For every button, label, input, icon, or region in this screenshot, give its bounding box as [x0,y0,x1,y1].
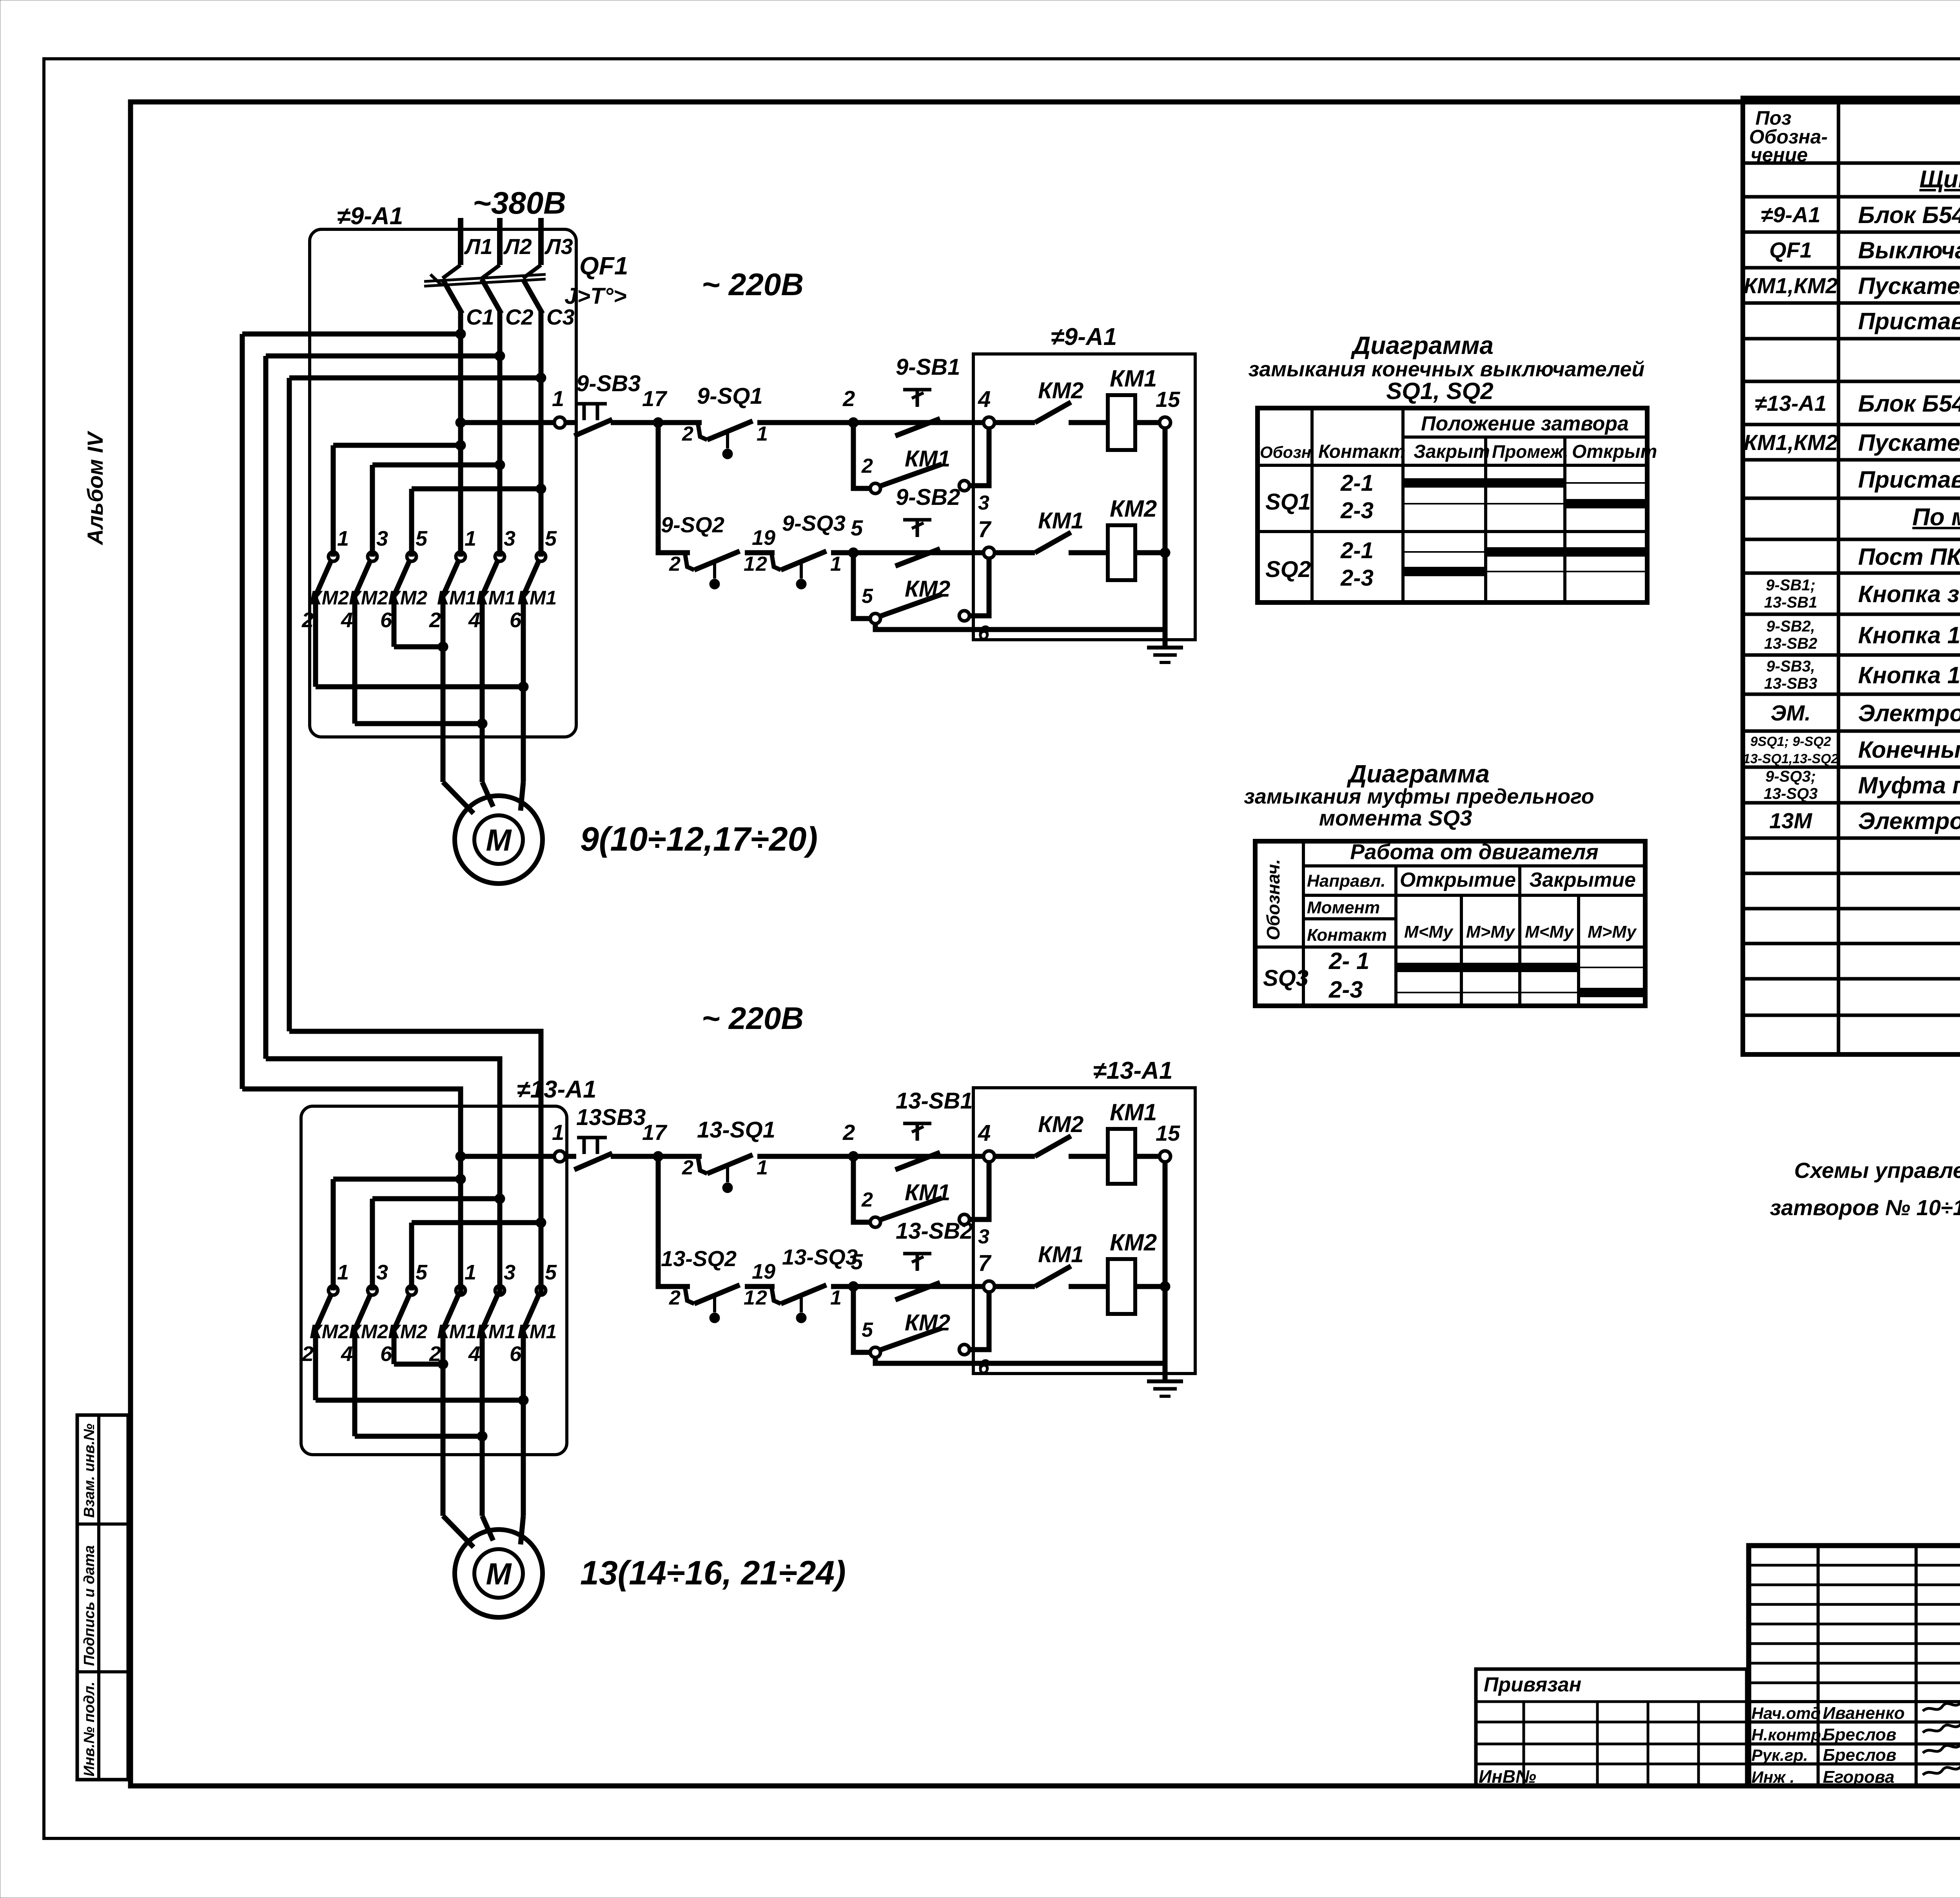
svg-text:Щит Щ1: Щит Щ1 [1919,166,1960,193]
svg-text:~380В: ~380В [473,185,566,220]
parts table row line [1743,497,1960,500]
svg-text:ИнВ№: ИнВ№ [1479,1766,1536,1787]
block ≠9-А1 control enclosure [973,354,1195,640]
ground wire vertical [1163,1162,1168,1381]
cross feed wire b [372,1196,500,1201]
svg-text:6: 6 [510,1342,522,1366]
svg-text:Промеж.: Промеж. [1492,441,1568,462]
svg-text:5: 5 [416,1261,428,1284]
parts table row line [1743,836,1960,840]
aux contact KM1 self-hold (13) [870,1198,969,1227]
wire [995,550,1035,555]
wire to node 15 [1135,420,1160,425]
cross feed wire c [412,1220,541,1225]
main contact КМ2 pole 3-4 (9) [355,552,377,596]
feeder wire 3 into lower block [289,1031,541,1295]
svg-text:КМ1: КМ1 [1110,1099,1157,1125]
svg-text:1: 1 [744,553,755,575]
return bus wire [875,624,1165,630]
svg-text:Привязан: Привязан [1484,1673,1581,1696]
svg-text:9-SQ1: 9-SQ1 [697,383,763,409]
svg-text:Обозн: Обозн [1260,443,1311,461]
pair join bracket 3 [355,721,482,726]
wire [1069,550,1108,555]
svg-text:чение: чение [1751,144,1808,166]
svg-text:9-SQ2: 9-SQ2 [661,512,724,537]
signature squiggle [1923,1742,1960,1753]
title block outline [1749,1546,1960,1786]
svg-text:Закрыт: Закрыт [1414,441,1490,462]
terminal circle 1 [554,1151,565,1162]
junction node 5 [848,1281,858,1292]
table 2 col line 2 [1394,866,1397,1006]
svg-text:Схемы управления выполнены д: Схемы управления выполнены для затворов … [1794,1158,1960,1183]
svg-text:КМ2: КМ2 [1038,1112,1083,1137]
closed bar SQ2 2-3 [1403,567,1486,576]
wire [1069,1284,1108,1289]
wire aux KM2 to node 7 [969,558,989,616]
ground (9) [1147,648,1183,662]
junction a [456,440,466,450]
svg-text:13(14÷16, 21÷24): 13(14÷16, 21÷24) [580,1554,846,1592]
motor M 9 [455,796,543,884]
wire node2 to aux KM1 [853,423,870,488]
contactor coil KM1 (13) [1108,1129,1135,1184]
contactor contact KM2 in rail 1 [1035,402,1071,423]
contactor contact KM1 in rail 2 [1035,1266,1071,1287]
svg-text:4: 4 [468,1342,480,1366]
wire to contact KM2-5 [409,1223,414,1290]
svg-text:2: 2 [861,455,873,477]
svg-text:2: 2 [842,1120,855,1145]
svg-text:2-1: 2-1 [1340,538,1374,563]
svg-text:М>Му: М>Му [1588,922,1637,942]
stamp strip divider 2 [77,1670,128,1673]
svg-text:QF1: QF1 [1769,238,1812,262]
wire to contact KM2-5 [409,489,414,557]
svg-text:КМ1: КМ1 [905,446,950,472]
privyazan col line [1523,1702,1525,1786]
stack row line [1749,1662,1960,1665]
torque switch 13-SQ3 [771,1285,826,1323]
junction node 2 [848,1151,858,1161]
parts table row line [1743,538,1960,541]
svg-text:Блок Б5438-3074гухл4: Блок Б5438-3074гухл4 [1858,390,1960,417]
svg-text:КМ2: КМ2 [905,576,950,602]
block ≠13-А1 control enclosure [973,1088,1195,1374]
terminal circle 7 [984,1281,995,1292]
svg-text:КМ1: КМ1 [1038,508,1083,533]
motor wire 2 [480,1329,485,1516]
privyazan col line [1697,1702,1700,1786]
svg-text:13-SB1: 13-SB1 [896,1088,973,1114]
svg-text:Приставка ПКЛ 2004: Приставка ПКЛ 2004 [1858,466,1960,493]
motor lead right [521,782,523,811]
svg-text:Обознач.: Обознач. [1263,859,1283,940]
svg-text:2: 2 [301,1342,314,1366]
svg-text:замыкания муфты предельного: замыкания муфты предельного [1244,785,1594,808]
svg-text:КМ1,КМ2: КМ1,КМ2 [1744,273,1838,298]
main contact КМ1 pole 3-4 (9) [482,552,505,596]
motor lead left [443,782,474,813]
block 13-A1 enclosure [301,1106,567,1455]
svg-text:1: 1 [465,527,476,550]
cross feed wire b [372,463,500,468]
svg-text:15: 15 [1156,1121,1180,1145]
signature squiggle [1923,1722,1960,1733]
pair join bracket 1 [394,644,443,650]
cross feed wire a [333,1177,461,1182]
parts table row line [1743,266,1960,270]
svg-text:2: 2 [755,1287,767,1309]
svg-text:~ 220В: ~ 220В [702,1001,804,1036]
junction bracket 3 [477,719,487,729]
junction node 5 [848,548,858,558]
closed bar SQ2 2-1 [1486,547,1647,557]
cross feed wire a [333,443,461,448]
table 2 header bottom [1255,945,1645,949]
junction bracket 2 [518,1395,528,1405]
svg-text:9-SB3: 9-SB3 [576,371,641,396]
svg-text:4: 4 [341,1342,353,1366]
parts table row line [1743,572,1960,575]
feeder wire 1 vertical [240,334,245,1089]
svg-text:1: 1 [465,1261,476,1284]
junction bracket 2 [518,682,528,692]
svg-text:Диаграмма: Диаграмма [1347,760,1490,788]
terminal circle 7 [984,547,995,558]
wire aux KM2 to node 7 [969,1292,989,1350]
closed bar SQ1 2-1 [1403,478,1565,488]
svg-text:Л2: Л2 [503,234,532,259]
svg-text:~ 220В: ~ 220В [702,267,804,302]
svg-text:2: 2 [669,553,681,575]
svg-text:5: 5 [416,527,428,550]
svg-text:Конечные выключатели: Конечные выключатели [1858,737,1960,763]
svg-text:1: 1 [757,1156,768,1179]
privyazan table outline [1476,1669,1747,1786]
diagram track line [1396,992,1645,993]
terminal circle 4 [984,417,995,428]
wire [565,1154,576,1159]
terminal circle 4 [984,1151,995,1162]
table 2 col line 5 [1577,895,1580,1006]
svg-text:2-1: 2-1 [1340,470,1374,496]
table 1 header split [1403,435,1647,439]
travel switch 9-SQ1 [698,421,753,459]
travel switch 13-SQ1 [698,1155,753,1193]
parts table row line [1743,380,1960,383]
stack row line [1749,1564,1960,1567]
privyazan col line [1596,1702,1599,1786]
parts table row line [1743,458,1960,462]
svg-text:19: 19 [752,526,775,550]
svg-text:2-3: 2-3 [1340,565,1374,591]
svg-text:Блок Б5437-3074гухл4: Блок Б5437-3074гухл4 [1858,202,1960,228]
svg-text:2- 1: 2- 1 [1328,948,1369,974]
svg-text:≠9-А1: ≠9-А1 [337,203,403,230]
parts table row line [1743,653,1960,657]
parts table outline [1743,98,1960,1054]
svg-text:КМ1: КМ1 [1038,1242,1083,1267]
diagram track line [1403,503,1647,504]
svg-text:КМ2: КМ2 [905,1310,950,1335]
wire to node 7 [831,550,984,555]
parts table row line [1743,977,1960,981]
svg-text:7: 7 [978,517,992,542]
svg-text:Электродвигатель 4АХС 80А4У3: Электродвигатель 4АХС 80А4У3 [1858,700,1960,726]
svg-text:Иваненко: Иваненко [1823,1704,1905,1723]
svg-text:Егорова: Егорова [1823,1767,1895,1787]
svg-text:Направл.: Направл. [1307,871,1386,891]
wire [995,1154,1035,1159]
svg-text:Рук.гр.: Рук.гр. [1751,1746,1808,1764]
wire contact 2 down [313,595,318,687]
terminal circle 15 [1160,417,1171,428]
wire coil KM2 output [1135,550,1165,555]
svg-text:2: 2 [301,608,314,632]
svg-text:1: 1 [744,1287,755,1309]
junction a [456,1174,466,1184]
motor wire 3 [521,1329,526,1516]
svg-text:Инв.№ подл.: Инв.№ подл. [81,1682,98,1776]
wire tap C3 to feeder [289,376,541,381]
diagram track line [1403,571,1647,572]
svg-text:2: 2 [861,1189,873,1211]
svg-text:Н.контр.: Н.контр. [1751,1726,1826,1744]
svg-text:1: 1 [830,553,842,575]
svg-text:замыкания конечных выключателе: замыкания конечных выключателей [1249,357,1645,381]
svg-text:19: 19 [752,1260,775,1283]
main contact КМ2 pole 5-6 (9) [394,552,416,596]
parts table row line [1743,942,1960,945]
parts col Poz [1837,98,1840,1054]
svg-text:1: 1 [757,423,768,445]
svg-text:9-SQ3: 9-SQ3 [782,511,846,535]
svg-text:М: М [486,823,512,857]
svg-text:Кнопка 1з+1р„ Закрыть.": Кнопка 1з+1р„ Закрыть." [1858,622,1960,648]
closed bar SQ3 2-1 [1396,963,1579,972]
contactor coil KM2 (13) [1108,1259,1135,1314]
svg-text:13-SB3: 13-SB3 [1764,675,1817,692]
table 2 outline [1255,841,1645,1006]
phase terminal L1 [458,218,463,265]
wire to contact KM2-3 [370,465,375,557]
parts table row line [1743,729,1960,733]
svg-text:≠9-А1: ≠9-А1 [1051,323,1117,350]
svg-text:Контакт: Контакт [1307,925,1387,945]
signature col line 1 [1817,1702,1820,1786]
svg-text:С2: С2 [505,305,534,329]
svg-text:13М: 13М [1769,808,1813,833]
svg-text:1: 1 [830,1287,842,1309]
table 1 col line 2 [1401,408,1405,602]
svg-text:≠9-А1: ≠9-А1 [1761,202,1820,227]
motor M 13 [455,1530,543,1617]
svg-text:По месту: По месту [1912,504,1960,531]
main contact КМ2 pole 3-4 (13) [355,1286,377,1330]
table 1 col line 3 [1484,437,1487,602]
svg-text:SQ2: SQ2 [1265,557,1311,582]
pair join bracket 1 [394,1362,443,1367]
svg-text:9-SB2: 9-SB2 [896,484,960,510]
svg-text:6: 6 [380,608,392,632]
svg-text:9-SB1;: 9-SB1; [1766,577,1816,594]
table 2 header line 1 [1303,864,1645,867]
wire contact 6 down [392,595,397,647]
wire to node 17 [611,1154,702,1159]
svg-text:Подпись и дата: Подпись и дата [81,1545,98,1666]
ground wire vertical [1163,428,1168,648]
wire contact 2 down [313,1329,318,1400]
ground (13) [1147,1381,1183,1396]
feeder wire 3 vertical [287,378,292,1031]
svg-text:1: 1 [552,1120,564,1145]
svg-text:Работа от двигателя: Работа от двигателя [1350,840,1599,864]
junction node 2 [848,417,858,428]
svg-text:6: 6 [510,608,522,632]
motor lead mid [482,782,493,807]
svg-text:момента SQ3: момента SQ3 [1319,806,1472,830]
svg-text:2-3: 2-3 [1328,976,1363,1003]
svg-text:Кнопка з±1р, „открыть".: Кнопка з±1р, „открыть". [1858,581,1960,607]
privyazan row line [1476,1700,1747,1703]
svg-text:М: М [486,1557,512,1591]
wire aux KM1 to node 4 [969,428,989,486]
wire to node 7 [831,1284,984,1289]
svg-text:3: 3 [504,527,515,550]
svg-text:15: 15 [1156,387,1180,412]
terminal circle 1 [554,417,565,428]
wire contact 6 down [392,1329,397,1364]
svg-text:3: 3 [978,492,989,514]
junction node 17 [653,417,663,428]
control rail 1 segment [461,1154,554,1159]
stack row line [1749,1603,1960,1606]
junction C2 tap [495,351,505,361]
privyazan row line [1476,1743,1747,1746]
svg-text:КМ2: КМ2 [1110,495,1157,522]
wire aux KM1 to node 4 [969,1162,989,1219]
svg-text:Закрытие: Закрытие [1529,869,1636,891]
wire node17 down to SQ2 branch [658,1156,690,1287]
wire contact 4 down [352,595,358,724]
svg-text:3: 3 [504,1261,515,1284]
svg-text:Муфта предельного момента: Муфта предельного момента [1858,772,1960,798]
main contact КМ1 pole 1-2 (9) [443,552,465,596]
motor wire 3 [521,595,526,782]
svg-text:3: 3 [978,1225,989,1248]
svg-text:1: 1 [552,386,564,411]
svg-text:6: 6 [380,1342,392,1366]
wire node5 to aux KM2 [853,553,870,619]
svg-text:17: 17 [642,1120,668,1145]
phase terminal L2 [497,218,503,265]
wire [995,420,1035,425]
parts table row line [1743,195,1960,199]
table 2 col line 1 [1302,841,1305,1006]
wire [1069,1154,1108,1159]
junction b [495,460,505,470]
wire coil KM2 output [1135,1284,1165,1289]
junction node 17 [653,1151,663,1161]
block 9-A1 enclosure [310,229,576,737]
stop button 9-SB3 [574,404,612,436]
stack row line [1749,1682,1960,1684]
junction C3 tap [536,373,546,383]
diagram track line [1403,551,1647,553]
svg-text:13-SB1: 13-SB1 [1764,594,1817,611]
wire tap C1 to feeder [242,332,461,337]
main contact КМ1 pole 3-4 (13) [482,1286,505,1330]
svg-text:Пускатель ПМЛ1501048: Пускатель ПМЛ1501048 [1858,273,1960,299]
contactor contact KM1 in rail 2 [1035,532,1071,553]
open button 9-SB1 [895,390,940,436]
parts table row line [1743,872,1960,875]
svg-text:2: 2 [842,386,855,411]
pair join bracket 2 [316,684,523,690]
main contact КМ2 pole 1-2 (9) [316,552,338,596]
pair join bracket 2 [316,1398,523,1403]
privyazan col line [1647,1702,1650,1786]
parts table row line [1743,801,1960,805]
table 1 row split [1258,530,1647,533]
signature squiggle [1923,1764,1960,1775]
terminal circle 15 [1160,1151,1171,1162]
stack row line [1749,1623,1960,1626]
contactor coil KM2 (9) [1108,525,1135,580]
signature squiggle [1923,1700,1960,1711]
parts table row line [1743,1014,1960,1017]
parts table row line [1743,613,1960,616]
svg-text:4: 4 [978,386,991,412]
svg-text:КМ1: КМ1 [1110,365,1157,392]
svg-text:9-SQ3;: 9-SQ3; [1766,768,1816,785]
stack row line [1749,1584,1960,1586]
wire [745,550,775,555]
table 2 col line 3 [1460,895,1463,1006]
svg-text:1: 1 [337,527,349,550]
stack col line 1 [1817,1546,1820,1702]
svg-text:7: 7 [978,1250,992,1276]
svg-text:Открыт: Открыт [1572,441,1657,462]
motor wire 2 [480,595,485,782]
wire to node 15 [1135,1154,1160,1159]
closed bar SQ3 2-3 [1579,988,1645,997]
motor wire 1 [441,595,446,782]
signature row line [1749,1700,1960,1703]
signature row line [1749,1742,1960,1746]
parts table row line [1743,337,1960,341]
table 2 col line 4 [1518,866,1521,1006]
svg-text:Пускатель ПМЛ1501048: Пускатель ПМЛ1501048 [1858,430,1960,456]
close button 9-SB2 [895,520,940,566]
main contact КМ1 pole 1-2 (13) [443,1286,465,1330]
svg-text:17: 17 [642,386,668,411]
junction on ground wire [1160,548,1170,558]
feeder wire 1 into lower block [242,1089,461,1295]
feeder wire 2 vertical [263,356,269,1059]
left stamp strip [77,1415,128,1780]
junction bracket 1 [438,1359,448,1369]
svg-text:Взам. инв.№: Взам. инв.№ [81,1424,98,1518]
svg-text:М<Му: М<Му [1525,922,1575,942]
svg-text:Кнопка 1з+1р, „Стоп": Кнопка 1з+1р, „Стоп" [1858,662,1960,688]
table 2 header line 2 [1303,894,1645,897]
svg-text:Открытие: Открытие [1400,869,1516,891]
signature row line [1749,1762,1960,1766]
privyazan row line [1476,1763,1747,1766]
